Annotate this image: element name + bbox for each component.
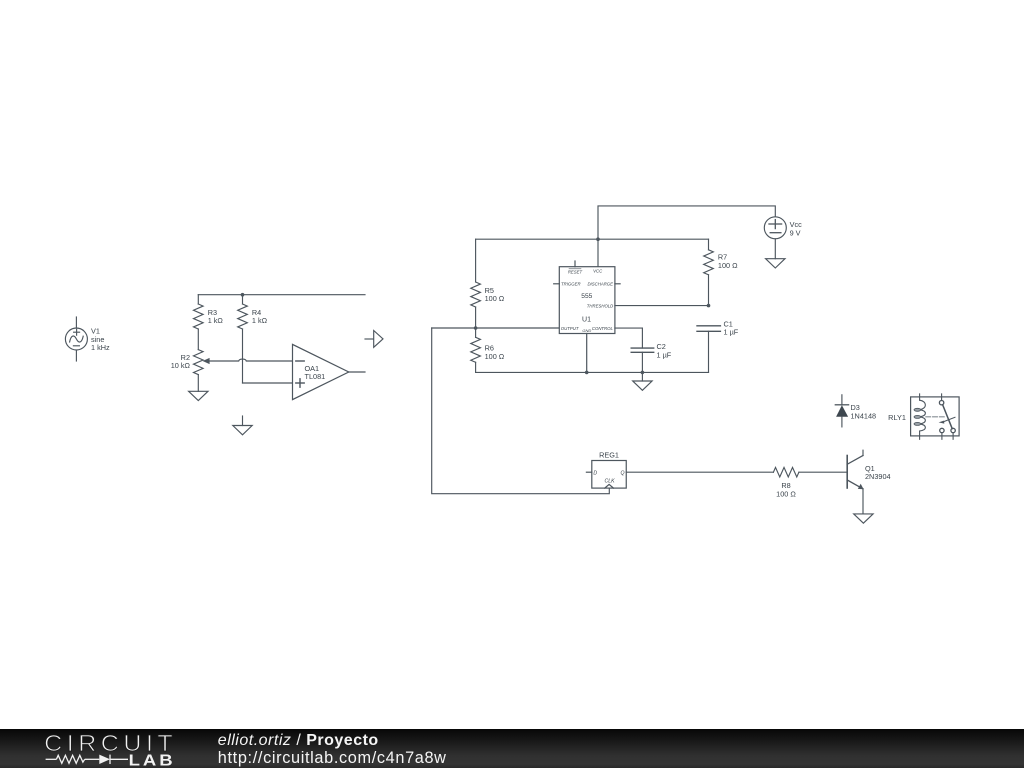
ground below R2: [189, 391, 208, 400]
capacitor C2: [631, 348, 654, 372]
resistor R4: [238, 295, 248, 383]
ground below Vcc: [766, 259, 785, 268]
relay switch: [939, 394, 956, 439]
svg-text:100 Ω: 100 Ω: [485, 294, 505, 303]
svg-text:OUTPUT: OUTPUT: [561, 326, 579, 331]
wire Vcc top rail: [598, 206, 775, 267]
resistor R5: [471, 239, 481, 328]
wire bottom rail: [476, 371, 709, 373]
svg-text:100 Ω: 100 Ω: [776, 489, 796, 498]
svg-text:TRIGGER: TRIGGER: [561, 282, 581, 287]
R6 labels: [485, 344, 505, 361]
svg-text:GND: GND: [582, 328, 591, 333]
svg-text:1 kΩ: 1 kΩ: [252, 316, 268, 325]
svg-text:LAB: LAB: [129, 752, 176, 768]
svg-text:DISCHARGE: DISCHARGE: [587, 282, 613, 287]
U1 pin labels: [561, 268, 614, 333]
svg-text:D: D: [593, 471, 597, 477]
node junction Vcc column: [596, 237, 600, 241]
svg-text:9 V: 9 V: [790, 228, 801, 237]
svg-text:2N3904: 2N3904: [865, 472, 891, 481]
ground below Q1: [854, 514, 873, 523]
svg-text:CLK: CLK: [604, 478, 615, 484]
svg-text:1 µF: 1 µF: [657, 350, 672, 359]
svg-text:RLY1: RLY1: [888, 413, 906, 422]
REG1 labels: [593, 450, 624, 484]
svg-text:THRESHOLD: THRESHOLD: [587, 304, 614, 309]
relay RLY1 box: [911, 397, 960, 436]
svg-text:TL081: TL081: [305, 372, 326, 381]
svg-text:Q: Q: [620, 471, 624, 477]
svg-text:REG1: REG1: [599, 450, 619, 459]
potentiometer R2: [194, 350, 210, 392]
resistor R6: [471, 328, 481, 372]
footer bar: [0, 729, 1024, 768]
node junction C2 bottom: [641, 371, 645, 375]
node junction threshold: [707, 304, 711, 308]
wire mid rail (R5 top to R7 top): [476, 238, 709, 240]
svg-text:VCC: VCC: [593, 268, 603, 273]
wire R4 to op-amp plus: [243, 382, 293, 384]
svg-text:555: 555: [581, 293, 592, 300]
footer text: [218, 732, 447, 768]
wire Q to R8 to Q1 base: [626, 471, 847, 473]
relay coil: [914, 394, 925, 439]
wire output column to REG1 clock: [432, 328, 610, 494]
node junction R4 top: [241, 293, 245, 297]
C1 labels: [724, 319, 739, 336]
node junction GND pin: [585, 371, 589, 375]
svg-text:1N4148: 1N4148: [851, 411, 877, 420]
wire output row (left column to 555 OUTPUT): [432, 327, 560, 329]
wire wiper to op-amp minus with hop: [209, 359, 293, 361]
voltage source V1: [65, 317, 87, 361]
R2 labels: [171, 353, 191, 370]
wire top rail left: [198, 294, 365, 296]
R3 labels: [208, 308, 224, 325]
svg-text:100 Ω: 100 Ω: [718, 261, 738, 270]
relay mechanical link dashed: [926, 416, 944, 418]
CIRCUIT LAB logo: [0, 729, 200, 768]
OA1 labels: [305, 364, 326, 381]
resistor R3: [194, 295, 204, 350]
Q1 labels: [865, 464, 891, 481]
resistor R7: [704, 239, 714, 305]
svg-text:10 kΩ: 10 kΩ: [171, 361, 191, 370]
output port flag: [365, 331, 383, 348]
svg-text:U1: U1: [582, 317, 591, 324]
R8 labels: [776, 481, 796, 498]
svg-text:RESET: RESET: [568, 269, 583, 274]
svg-text:1 kHz: 1 kHz: [91, 343, 110, 352]
resistor R8: [773, 467, 799, 477]
svg-text:100 Ω: 100 Ω: [485, 352, 505, 361]
wire op-amp output: [349, 371, 365, 373]
ground below C2: [633, 372, 652, 390]
svg-text:1 kΩ: 1 kΩ: [208, 316, 224, 325]
flip-flop REG1: [586, 461, 626, 489]
wire CONTROL to C2: [615, 328, 643, 348]
V1 labels: [91, 327, 110, 353]
node junction R5/R6: [474, 326, 478, 330]
wire THRESHOLD to R7/C1 node: [615, 305, 709, 307]
555 timer U1 box: [554, 261, 620, 372]
R5 labels: [485, 286, 505, 303]
R4 labels: [252, 308, 268, 325]
svg-text:1 µF: 1 µF: [724, 328, 739, 337]
diode D3: [835, 395, 848, 427]
D3 labels: [851, 403, 877, 420]
svg-text:CONTROL: CONTROL: [592, 326, 614, 331]
transistor Q1: [847, 450, 863, 514]
capacitor C1: [697, 326, 720, 373]
C2 labels: [657, 342, 672, 359]
ground floating below op-amp: [233, 416, 252, 435]
voltage source Vcc: [764, 217, 786, 259]
R7 labels: [718, 253, 738, 270]
op-amp OA1: [293, 344, 349, 399]
Vcc labels: [790, 220, 803, 237]
